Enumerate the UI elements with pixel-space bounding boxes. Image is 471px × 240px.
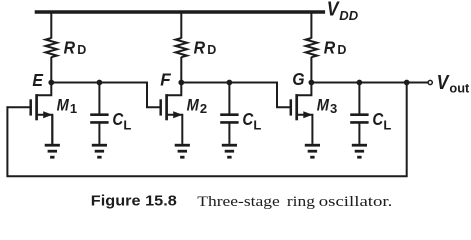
junction node G	[309, 80, 315, 86]
ground below C3	[352, 145, 367, 157]
svg-text:D: D	[207, 43, 216, 57]
wire resistor R1 to node E	[50, 57, 52, 83]
svg-text:L: L	[253, 117, 261, 132]
svg-text:R: R	[194, 37, 206, 57]
svg-text:C: C	[372, 110, 383, 129]
output terminal circle	[428, 80, 432, 84]
transistor M3	[291, 83, 313, 144]
ground below M1 source	[45, 115, 60, 157]
ground below M3 source	[305, 145, 320, 157]
capacitor C3	[350, 83, 368, 144]
svg-text:Figure 15.8: Figure 15.8	[91, 194, 177, 210]
svg-text:C: C	[112, 110, 123, 129]
wire resistor R2 to node F	[180, 57, 182, 83]
svg-text:V: V	[437, 71, 450, 93]
label M3	[317, 96, 338, 116]
svg-text:E: E	[32, 70, 43, 90]
wire rail to resistor R3	[310, 12, 312, 39]
svg-text:out: out	[449, 81, 470, 96]
svg-text:DD: DD	[339, 8, 358, 23]
svg-text:M: M	[57, 96, 70, 114]
wire rail to resistor R2	[180, 12, 182, 39]
node G wire to Vout terminal	[311, 82, 428, 84]
svg-text:G: G	[292, 69, 304, 89]
svg-text:M: M	[187, 96, 200, 114]
svg-text:V: V	[327, 0, 340, 20]
svg-text:D: D	[337, 43, 346, 57]
label RD 2	[194, 37, 217, 57]
svg-text:M: M	[317, 96, 330, 114]
svg-text:1: 1	[70, 101, 77, 116]
svg-text:Three-stage: Three-stage	[197, 194, 280, 210]
node F wire to M3 gate	[181, 83, 291, 108]
ground below C1	[92, 145, 107, 157]
transistor M1	[31, 83, 53, 144]
capacitor C1	[90, 83, 108, 144]
svg-text:L: L	[383, 117, 391, 132]
svg-text:L: L	[123, 117, 131, 132]
label RD 1	[64, 37, 87, 57]
label Vout	[437, 71, 470, 95]
wire rail to resistor R1	[50, 12, 52, 39]
svg-text:C: C	[242, 110, 253, 129]
svg-text:oscillator.: oscillator.	[319, 194, 393, 210]
label M1	[57, 96, 78, 116]
ground below C2	[222, 145, 237, 157]
svg-text:3: 3	[330, 101, 337, 116]
junction feedback tap	[404, 80, 410, 86]
ground below M2 source	[175, 145, 190, 157]
resistor R3	[306, 38, 317, 57]
junction C2 top	[227, 80, 233, 86]
capacitor C2	[220, 83, 238, 144]
svg-text:R: R	[64, 37, 76, 57]
label M2	[187, 96, 208, 116]
label VDD	[327, 0, 359, 23]
transistor M2	[161, 83, 183, 144]
svg-text:D: D	[77, 43, 86, 57]
svg-text:2: 2	[200, 101, 207, 116]
node E wire to M2 gate	[51, 83, 161, 108]
svg-text:R: R	[324, 37, 336, 57]
junction C1 top	[97, 80, 103, 86]
label CL 1	[112, 110, 131, 133]
wire M1 gate lead	[7, 106, 32, 108]
wire resistor R3 to node G	[310, 57, 312, 83]
junction node F	[178, 80, 184, 86]
label CL 2	[242, 110, 261, 133]
resistor R1	[46, 38, 57, 57]
feedback wire from output to M1 gate	[7, 83, 406, 177]
VDD supply rail	[35, 10, 325, 13]
svg-text:ring: ring	[287, 194, 316, 210]
junction C3 top	[357, 80, 363, 86]
junction node E	[48, 80, 54, 86]
caption	[91, 194, 393, 211]
label CL 3	[372, 110, 391, 133]
label RD 3	[324, 37, 347, 57]
resistor R2	[176, 38, 187, 57]
svg-text:F: F	[160, 69, 172, 90]
